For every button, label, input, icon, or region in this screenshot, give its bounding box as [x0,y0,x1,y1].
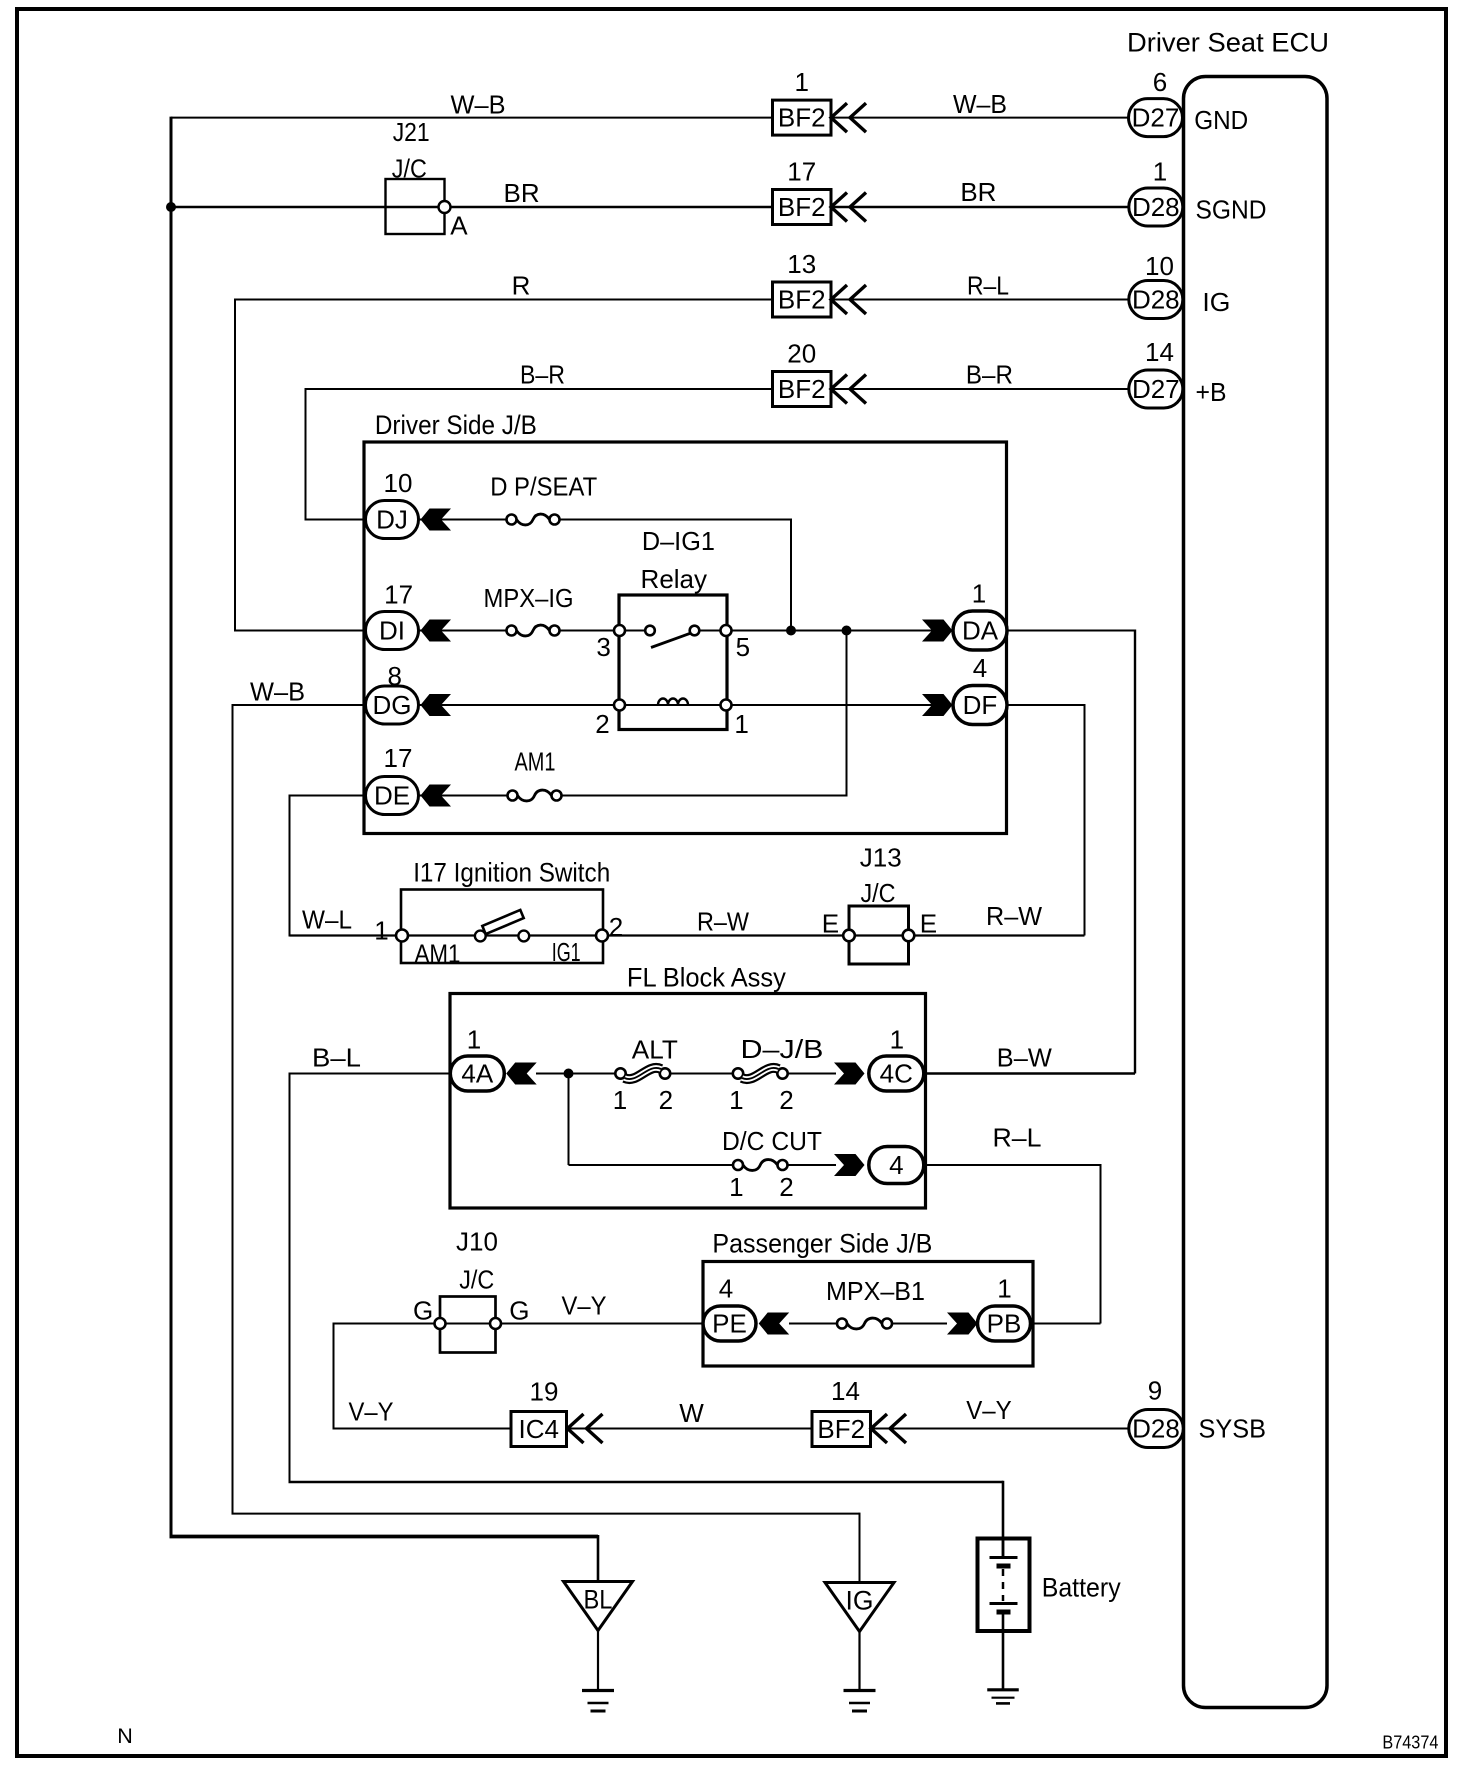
label AM1 [515,747,556,777]
label W [679,1398,704,1428]
svg-text:D27: D27 [1132,374,1180,404]
pin 2 of D-J/B [779,1085,793,1115]
fuse AM1 [508,790,562,801]
svg-text:D28: D28 [1132,285,1180,315]
label B-W [997,1043,1052,1073]
svg-text:1: 1 [997,1274,1011,1304]
label Driver Side J/B [375,410,537,440]
label I17 Ignition Switch [413,858,610,888]
fusible link D-J/B [733,1068,788,1079]
svg-text:17: 17 [384,580,413,610]
chevron marks after IC4 [568,1414,603,1443]
label W-B right row1 [953,89,1007,119]
wire row2 BR full [171,206,773,209]
pin 2 of D/C CUT [779,1172,793,1202]
label GND [1194,105,1248,135]
label IG1 contact [552,937,581,967]
pin 1 above D28 SGND [1153,157,1167,187]
wire W segment [568,1428,813,1430]
svg-text:E: E [920,909,937,939]
wire DJ row [306,519,792,632]
svg-text:I17 Ignition Switch: I17 Ignition Switch [413,858,610,888]
pin 10 above D28 IG [1145,251,1174,281]
svg-text:B–R: B–R [966,360,1013,390]
pin E left of J13 [822,909,839,939]
svg-text:BR: BR [960,177,996,207]
connector DI [366,612,419,650]
pin 1 of ALT [613,1085,627,1115]
wire row1 W-B right segment [831,117,1129,119]
ECU Driver Seat ECU body [1127,28,1329,1708]
label D/C CUT [722,1126,822,1156]
connector BF2 row1 [773,100,832,135]
label R left [512,271,531,301]
connector PB [978,1306,1031,1341]
svg-text:DF: DF [963,690,998,720]
svg-text:ALT: ALT [632,1035,678,1065]
label A pin of J21 [450,211,468,241]
junction dot relay output 2 [842,626,852,636]
svg-text:D–IG1: D–IG1 [642,526,715,556]
fuse MPX-IG [507,625,560,636]
svg-text:20: 20 [787,339,816,369]
wire W-B vertical run DG row to IG triangle [232,704,860,1583]
pin 1 above PB [997,1274,1011,1304]
svg-text:AM1: AM1 [515,747,556,777]
label ALT [632,1035,678,1065]
label B74374 [1382,1733,1438,1753]
svg-text:SGND: SGND [1196,194,1267,224]
svg-text:IG1: IG1 [552,937,581,967]
svg-text:5: 5 [736,632,750,662]
wire V-Y right segment [871,1428,1129,1430]
svg-text:R–L: R–L [967,271,1009,301]
wire row4 B-R left segment [306,388,773,390]
connector DG [366,686,419,724]
svg-text:J/C: J/C [459,1265,494,1295]
label BR left [504,178,540,208]
label J13 [860,842,902,872]
svg-text:2: 2 [609,912,623,942]
svg-text:4C: 4C [880,1059,913,1089]
svg-text:1: 1 [890,1025,904,1055]
pin 1 above DA [972,579,986,609]
chevron marks row3 [831,285,866,314]
svg-text:R–W: R–W [986,901,1042,931]
svg-text:14: 14 [831,1376,860,1406]
connector IC4 [511,1412,567,1447]
arrow into 4C [834,1063,865,1085]
svg-text:DA: DA [962,616,999,646]
svg-text:1: 1 [1153,157,1167,187]
connector BF2 row2 [773,190,832,225]
svg-text:2: 2 [779,1172,793,1202]
connector BF2 row4 [773,372,832,407]
pin G right of J10 [509,1296,529,1326]
wire thick run to BL ground [170,1535,599,1582]
svg-text:10: 10 [384,468,413,498]
pin 2 of ALT [659,1085,673,1115]
wire B-L left of 4A [290,1073,452,1075]
connector 4A [450,1056,504,1091]
connector D28 IG [1129,281,1183,319]
label SGND [1196,194,1267,224]
chevron marks row1 [831,103,866,132]
pin 3 of relay [596,632,610,662]
fusible link ALT [615,1068,670,1079]
svg-text:A: A [450,211,468,241]
label J/C of J10 [459,1265,494,1295]
wire IG triangle to ground [858,1631,860,1691]
label D-IG1 [642,526,715,556]
junction connector J13 J/C [843,906,914,964]
pin 1 of relay [734,709,748,739]
svg-text:9: 9 [1148,1376,1162,1406]
svg-text:BF2: BF2 [778,103,826,133]
wire BL triangle to ground [597,1631,599,1691]
chevron marks after BF2 bottom [871,1414,906,1443]
pin 14 above BF2 bottom [831,1376,860,1406]
label Passenger Side J/B [712,1229,932,1259]
wire DA to B-W corner [1006,630,1135,1074]
switch I17 ignition switch [396,890,608,964]
svg-text:1: 1 [729,1172,743,1202]
label J21 [393,117,430,147]
label B-R right [966,360,1013,390]
svg-text:1: 1 [794,67,808,97]
block FL Block Assy box [450,994,926,1209]
arrow into PB [947,1313,978,1335]
pin 14 above D27 +B [1145,337,1174,367]
wire W-B vertical run from GND row down bottom-left [170,117,173,1538]
connector DJ [366,501,419,539]
pin 17 above DE [384,743,413,773]
svg-text:BR: BR [504,178,540,208]
svg-text:B–W: B–W [997,1043,1052,1073]
pin 1 above 4A [467,1025,481,1055]
svg-text:D–J/B: D–J/B [741,1034,824,1064]
connector DF [953,686,1007,725]
label B-L [312,1043,361,1073]
label R-L lower [993,1123,1042,1153]
svg-text:10: 10 [1145,251,1174,281]
wire V-Y vertical run J10 to IC4 row [334,1323,512,1430]
pin 9 above D28 SYSB [1148,1376,1162,1406]
connector 4 [869,1147,924,1184]
connector D28 SGND [1129,188,1183,226]
junction connector J10 J/C [435,1297,502,1353]
block Passenger Side J/B box [703,1262,1033,1367]
label FL Block Assy [627,963,786,993]
svg-text:IG: IG [846,1586,874,1616]
svg-text:14: 14 [1145,337,1174,367]
junction connector J21 J/C [386,179,451,234]
label MPX-IG [484,583,574,613]
svg-text:2: 2 [659,1085,673,1115]
svg-text:GND: GND [1194,105,1248,135]
arrow into 4 [834,1154,865,1176]
wire DI row [235,630,953,632]
pin 2 of ignition switch [609,912,623,942]
svg-text:D28: D28 [1132,1414,1180,1444]
svg-text:PB: PB [987,1309,1022,1339]
wire B-W row inside FL block [536,1073,836,1075]
connector 4C [869,1056,924,1091]
pin 17 above DI [384,580,413,610]
connector D27 GND [1129,99,1183,137]
pin 20 above BF2 row4 [787,339,816,369]
label V-Y right [966,1395,1012,1425]
svg-text:13: 13 [787,249,816,279]
ground symbol IG [844,1691,876,1712]
svg-text:G: G [413,1296,433,1326]
svg-text:17: 17 [787,157,816,187]
svg-text:1: 1 [972,579,986,609]
fuse D/C CUT [733,1160,788,1171]
label W-B left row1 [451,90,506,120]
pin 4 above PE [719,1274,733,1304]
wire V-Y J10 row [334,1323,704,1325]
svg-text:2: 2 [779,1085,793,1115]
label R-L [967,271,1009,301]
pin 1 of D-J/B [729,1085,743,1115]
wire MPX-B1 row [789,1323,947,1325]
fuse D P/SEAT [507,514,560,525]
pin 6 above D27 GND [1153,67,1167,97]
label V-Y at J10 [562,1291,607,1321]
label BR right [960,177,996,207]
pin 5 of relay [736,632,750,662]
pin G left of J10 [413,1296,433,1326]
connector D28 SYSB [1129,1410,1184,1448]
pin 2 of relay [595,709,609,739]
svg-text:1: 1 [467,1025,481,1055]
arrow into DJ [421,509,452,531]
svg-text:BF2: BF2 [778,285,826,315]
junction dot relay output 1 [786,626,796,636]
chevron marks row2 [831,193,866,222]
svg-text:AM1: AM1 [415,939,461,969]
svg-text:4A: 4A [461,1059,493,1089]
svg-text:N: N [117,1724,133,1748]
svg-text:R: R [512,271,531,301]
svg-text:J10: J10 [456,1227,498,1257]
pin 19 above IC4 [530,1377,559,1407]
svg-text:G: G [509,1296,529,1326]
wire row2 BR right segment [831,206,1129,209]
label R-W right [986,901,1042,931]
wire DG row [233,704,953,706]
svg-text:1: 1 [734,709,748,739]
label D P/SEAT [490,471,597,501]
pin 1 of ignition switch [374,916,388,946]
wire B-R vertical run row4 to DJ [305,388,307,521]
wire B-L vertical run 4A to battery [289,1073,1004,1557]
label B-R left [520,360,565,390]
svg-text:MPX–B1: MPX–B1 [826,1276,925,1306]
svg-text:IC4: IC4 [519,1414,559,1444]
svg-text:DE: DE [374,781,410,811]
label J/C of J21 [392,153,427,183]
wire DE row [290,795,847,797]
wire W-L row [290,934,1085,936]
wire row4 B-R right segment [831,388,1129,390]
svg-text:19: 19 [530,1377,559,1407]
label +B [1196,377,1227,407]
label AM1 contact [415,939,461,969]
ground symbol battery [987,1690,1019,1704]
svg-text:V–Y: V–Y [966,1395,1012,1425]
wire PB to R-L corner [1031,1323,1101,1325]
svg-text:J21: J21 [393,117,430,147]
svg-text:Passenger Side J/B: Passenger Side J/B [712,1229,932,1259]
pin 13 above BF2 row3 [787,249,816,279]
pin 4 above DF [973,653,987,683]
pin 1 above 4C [890,1025,904,1055]
pin E right of J13 [920,909,937,939]
svg-text:4: 4 [889,1150,903,1180]
svg-text:6: 6 [1153,67,1167,97]
label V-Y left bottom [349,1397,394,1427]
svg-text:W–B: W–B [250,677,305,707]
arrow into DA [922,620,953,642]
wire W-L vertical run DE row to ignition switch [289,795,291,937]
label J10 [456,1227,498,1257]
svg-text:17: 17 [384,743,413,773]
svg-text:BL: BL [584,1585,613,1615]
fuse MPX-B1 [837,1318,892,1329]
connector D27 +B [1129,370,1183,408]
arrow into DI [421,620,452,642]
connector BF2 row3 [773,282,832,317]
svg-text:D/C CUT: D/C CUT [722,1126,822,1156]
svg-text:IG: IG [1202,287,1230,317]
wire B-W right of 4C [924,1072,1135,1074]
svg-text:BF2: BF2 [817,1414,865,1444]
ground triangle IG [825,1583,894,1632]
svg-text:DJ: DJ [376,505,408,535]
pin 17 above BF2 row2 [787,157,816,187]
svg-text:R–L: R–L [993,1123,1042,1153]
wire AM1 riser [846,631,848,797]
connector PE [703,1306,756,1341]
svg-text:B–R: B–R [520,360,565,390]
pin 1 above BF2 row1 [794,67,808,97]
block Driver Side J/B box [364,442,1007,834]
wire row1 W-B left segment [171,117,773,119]
svg-text:+B: +B [1196,377,1227,407]
svg-text:SYSB: SYSB [1199,1414,1267,1444]
connector DE [366,777,419,815]
svg-text:D27: D27 [1132,103,1180,133]
svg-text:BF2: BF2 [778,192,826,222]
arrow into DF [922,694,953,716]
wire D/C CUT feed [569,1074,837,1166]
svg-text:3: 3 [596,632,610,662]
svg-text:W: W [679,1398,704,1428]
ground symbol BL [582,1691,614,1712]
connector DA [953,611,1007,650]
svg-text:E: E [822,909,839,939]
battery [978,1539,1030,1689]
arrow into PE [759,1313,790,1335]
arrow into DE [421,785,452,807]
svg-text:FL Block Assy: FL Block Assy [627,963,786,993]
connector BF2 bottom [812,1412,871,1447]
svg-text:DI: DI [379,616,405,646]
relay D-IG1 [614,595,732,730]
svg-text:1: 1 [374,916,388,946]
label Relay [641,564,707,594]
svg-text:B–L: B–L [312,1043,361,1073]
wire row3 R-L right segment [831,299,1129,301]
svg-text:PE: PE [712,1309,747,1339]
label N [117,1724,133,1748]
svg-text:1: 1 [729,1085,743,1115]
label Battery [1042,1573,1121,1603]
label W-L [302,905,352,935]
pin 10 above DJ [384,468,413,498]
svg-text:D28: D28 [1132,192,1180,222]
pin 1 of D/C CUT [729,1172,743,1202]
svg-text:D P/SEAT: D P/SEAT [490,471,597,501]
ground triangle BL [564,1582,633,1631]
svg-text:W–B: W–B [451,90,506,120]
svg-text:R–W: R–W [697,906,749,936]
label IG [1202,287,1230,317]
svg-text:J/C: J/C [861,878,896,908]
label R-W left [697,906,749,936]
svg-text:Relay: Relay [641,564,707,594]
svg-text:Driver Side J/B: Driver Side J/B [375,410,537,440]
label J/C of J13 [861,878,896,908]
wire R-L from 4 [924,1164,1101,1324]
label W-B at DG row [250,677,305,707]
svg-text:BF2: BF2 [778,374,826,404]
label D-J/B [741,1034,824,1064]
junction dot ALT feed [564,1069,574,1079]
svg-text:V–Y: V–Y [562,1291,607,1321]
wire row3 R left segment [235,299,773,301]
pin 8 above DG [387,661,401,691]
wire R vertical run row3 to DI [234,299,236,632]
svg-text:1: 1 [613,1085,627,1115]
svg-text:Driver Seat ECU: Driver Seat ECU [1127,28,1329,58]
svg-text:J/C: J/C [392,153,427,183]
arrow into 4A [506,1063,537,1085]
svg-text:B74374: B74374 [1382,1733,1438,1753]
svg-text:W–L: W–L [302,905,352,935]
junction dot row2 [166,202,176,212]
svg-text:W–B: W–B [953,89,1007,119]
label SYSB [1199,1414,1267,1444]
chevron marks row4 [831,375,866,404]
svg-text:4: 4 [719,1274,733,1304]
label MPX-B1 [826,1276,925,1306]
svg-text:DG: DG [373,690,412,720]
arrow into DG [421,694,452,716]
svg-text:2: 2 [595,709,609,739]
svg-text:Battery: Battery [1042,1573,1121,1603]
svg-text:V–Y: V–Y [349,1397,394,1427]
svg-text:MPX–IG: MPX–IG [484,583,574,613]
svg-text:J13: J13 [860,842,902,872]
wire DF to R-W corner [1006,704,1085,936]
svg-text:4: 4 [973,653,987,683]
